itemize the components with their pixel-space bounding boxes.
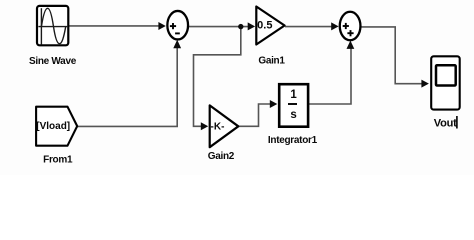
svg-text:Gain2: Gain2 bbox=[208, 151, 235, 162]
svg-text:0.5: 0.5 bbox=[257, 20, 272, 32]
svg-text:1: 1 bbox=[290, 89, 297, 101]
svg-text:Gain1: Gain1 bbox=[258, 56, 285, 67]
svg-text:Sine Wave: Sine Wave bbox=[29, 56, 77, 67]
svg-text:Integrator1: Integrator1 bbox=[268, 135, 318, 146]
svg-text:From1: From1 bbox=[43, 154, 73, 165]
svg-text:s: s bbox=[290, 109, 296, 121]
svg-text:[Vload]: [Vload] bbox=[36, 121, 70, 132]
svg-text:-K-: -K- bbox=[211, 122, 225, 133]
svg-text:Vout: Vout bbox=[434, 118, 457, 130]
